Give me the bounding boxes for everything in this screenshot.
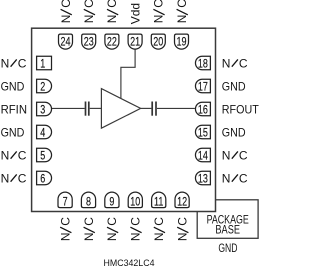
svg-text:GND: GND bbox=[218, 243, 238, 256]
svg-text:15: 15 bbox=[198, 126, 208, 140]
svg-text:21: 21 bbox=[130, 35, 140, 49]
svg-text:N: N bbox=[222, 171, 231, 185]
svg-text:GND: GND bbox=[1, 79, 25, 93]
svg-text:N: N bbox=[105, 15, 119, 24]
svg-text:N: N bbox=[1, 171, 10, 185]
svg-text:GND: GND bbox=[222, 79, 246, 93]
svg-text:N: N bbox=[175, 232, 189, 241]
svg-text:5: 5 bbox=[40, 149, 45, 163]
svg-text:C: C bbox=[152, 217, 166, 226]
svg-text:C: C bbox=[129, 217, 143, 226]
svg-text:C: C bbox=[105, 217, 119, 226]
svg-text:GND: GND bbox=[222, 125, 246, 139]
svg-text:C: C bbox=[59, 0, 73, 8]
svg-text:HMC342LC4: HMC342LC4 bbox=[104, 258, 155, 269]
svg-text:Vdd: Vdd bbox=[128, 3, 142, 24]
svg-text:2: 2 bbox=[40, 80, 45, 94]
svg-text:N: N bbox=[59, 15, 73, 24]
svg-text:C: C bbox=[82, 0, 96, 8]
svg-text:7: 7 bbox=[63, 195, 68, 209]
svg-text:N: N bbox=[82, 15, 96, 24]
svg-text:GND: GND bbox=[1, 125, 25, 139]
svg-text:N: N bbox=[105, 232, 119, 241]
svg-text:N: N bbox=[152, 232, 166, 241]
svg-text:N: N bbox=[222, 56, 231, 70]
svg-text:C: C bbox=[82, 217, 96, 226]
svg-text:N: N bbox=[222, 148, 231, 162]
svg-text:C: C bbox=[58, 217, 72, 226]
svg-text:22: 22 bbox=[107, 35, 117, 49]
svg-text:C: C bbox=[18, 56, 27, 70]
svg-text:N: N bbox=[58, 232, 72, 241]
svg-text:C: C bbox=[239, 171, 248, 185]
svg-text:N: N bbox=[82, 232, 96, 241]
svg-text:13: 13 bbox=[198, 172, 208, 186]
svg-text:20: 20 bbox=[153, 35, 163, 49]
svg-text:N: N bbox=[175, 15, 189, 24]
svg-text:RFIN: RFIN bbox=[1, 102, 27, 116]
svg-text:16: 16 bbox=[198, 103, 208, 117]
svg-text:N: N bbox=[1, 56, 10, 70]
svg-text:23: 23 bbox=[84, 35, 94, 49]
svg-text:18: 18 bbox=[198, 57, 208, 71]
svg-text:8: 8 bbox=[86, 195, 91, 209]
svg-text:N: N bbox=[152, 15, 166, 24]
svg-text:14: 14 bbox=[198, 149, 208, 163]
svg-text:9: 9 bbox=[109, 195, 114, 209]
svg-text:C: C bbox=[105, 0, 119, 8]
svg-text:3: 3 bbox=[40, 103, 45, 117]
svg-text:1: 1 bbox=[40, 57, 45, 71]
svg-text:C: C bbox=[239, 56, 248, 70]
svg-text:C: C bbox=[18, 148, 27, 162]
svg-text:BASE: BASE bbox=[215, 223, 240, 236]
svg-text:C: C bbox=[152, 0, 166, 8]
svg-text:C: C bbox=[175, 217, 189, 226]
svg-text:24: 24 bbox=[60, 35, 70, 49]
svg-text:17: 17 bbox=[198, 80, 208, 94]
svg-text:6: 6 bbox=[40, 172, 45, 186]
svg-text:19: 19 bbox=[176, 35, 186, 49]
svg-text:11: 11 bbox=[154, 195, 163, 209]
svg-text:N: N bbox=[1, 148, 10, 162]
svg-text:C: C bbox=[175, 0, 189, 8]
svg-text:4: 4 bbox=[40, 126, 45, 140]
svg-text:10: 10 bbox=[130, 195, 140, 209]
svg-text:C: C bbox=[18, 171, 27, 185]
svg-text:N: N bbox=[129, 232, 143, 241]
svg-text:RFOUT: RFOUT bbox=[222, 102, 260, 116]
svg-text:12: 12 bbox=[177, 195, 187, 209]
svg-text:C: C bbox=[239, 148, 248, 162]
